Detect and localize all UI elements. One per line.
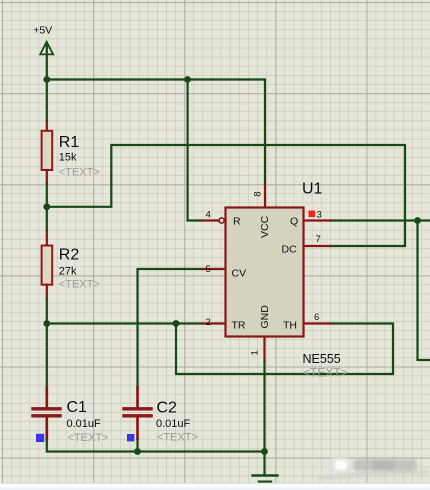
pin stub C1 bottom [45, 418, 48, 440]
wire Q output [330, 219, 430, 221]
wire CV to C2 [138, 269, 204, 388]
wire C1 to ground rail [47, 440, 265, 452]
wire R1 to node [46, 183, 48, 207]
wire C2 to ground rail [136, 439, 138, 452]
svg-text:R2: R2 [59, 247, 80, 264]
ground symbol [253, 476, 278, 482]
svg-text:VCC: VCC [259, 215, 271, 238]
pin 7 stub [304, 245, 331, 247]
svg-text:TR: TR [232, 320, 246, 332]
wire left rail (R1 top) [46, 80, 48, 121]
capacitor C2 [124, 407, 151, 410]
resistor R2 [42, 246, 53, 285]
pin 3 marker square [309, 211, 316, 218]
node top-left [43, 76, 50, 83]
pin stub C2 bottom [136, 418, 139, 439]
wire Q branch down [418, 221, 430, 361]
wire TR rail [47, 322, 203, 324]
capacitor C1 [33, 407, 60, 410]
svg-text:C2: C2 [157, 399, 178, 416]
svg-text:U1: U1 [302, 181, 323, 198]
node TR branch [173, 320, 180, 327]
resistor R1 [42, 131, 53, 170]
pin stub R1 bottom [46, 170, 48, 183]
svg-text:3: 3 [317, 209, 322, 220]
pin stub R2 top [46, 231, 48, 246]
svg-text:Q: Q [290, 215, 298, 227]
pin 4 stub [201, 219, 219, 221]
pin 1 stub [263, 337, 265, 362]
op-amp U1 555 body [226, 208, 304, 337]
svg-text:<TEXT>: <TEXT> [157, 432, 198, 444]
pin 8 stub [264, 184, 266, 208]
node ground rail [261, 448, 268, 455]
pin 5 stub [203, 268, 226, 270]
svg-text:+5V: +5V [33, 25, 52, 37]
svg-text:CV: CV [232, 267, 247, 279]
wire DC feedback: node to pin 7 [47, 145, 405, 246]
svg-text:NE555: NE555 [303, 352, 341, 366]
svg-text:<TEXT>: <TEXT> [303, 365, 348, 379]
svg-text:R: R [233, 215, 241, 227]
svg-text:4: 4 [206, 210, 211, 221]
svg-text:C1: C1 [67, 399, 88, 416]
pin stub C2 top [136, 388, 139, 408]
node Q branch [414, 217, 421, 224]
svg-text:15k: 15k [59, 152, 77, 164]
node pin4 branch [184, 76, 191, 83]
node C2/ground rail [134, 448, 141, 455]
svg-text:GND: GND [259, 305, 271, 329]
pin stub R1 top [46, 121, 48, 132]
svg-text:8: 8 [252, 192, 263, 197]
node R2/C1/TR [43, 320, 50, 327]
svg-text:<TEXT>: <TEXT> [68, 432, 109, 444]
C1 handle square [36, 434, 44, 442]
pin 3 stub [304, 219, 331, 221]
pin 6 stub [304, 322, 331, 324]
svg-text:0.01uF: 0.01uF [156, 418, 191, 430]
svg-text:27k: 27k [59, 266, 77, 278]
svg-text:<TEXT>: <TEXT> [59, 166, 100, 178]
wire pin4 reset [188, 80, 201, 221]
wire R2 to node [46, 300, 48, 324]
wire TR to TH [176, 324, 393, 375]
power symbol +5V arrow [46, 44, 48, 80]
svg-text:DC: DC [282, 243, 298, 255]
pin stub C1 top [45, 388, 48, 408]
svg-text:<TEXT>: <TEXT> [59, 279, 100, 291]
svg-text:R1: R1 [59, 134, 80, 151]
svg-text:1: 1 [250, 350, 261, 355]
bottom white strip [0, 483, 430, 490]
svg-text:2: 2 [206, 317, 211, 328]
wire C1 top [46, 324, 48, 388]
pin stub R2 bottom [46, 285, 48, 300]
pin 2 stub [203, 322, 226, 324]
svg-text:6: 6 [314, 312, 319, 323]
wire R2 top [46, 207, 48, 231]
svg-text:5: 5 [206, 264, 211, 275]
svg-text:TH: TH [283, 319, 297, 331]
pin 4 bubble [219, 218, 224, 223]
C2 handle square [127, 434, 134, 441]
svg-text:7: 7 [316, 234, 321, 245]
wire GND down [263, 361, 265, 475]
node R1/R2/DC [43, 203, 50, 210]
svg-text:0.01uF: 0.01uF [67, 418, 102, 430]
watermark blob [316, 457, 428, 480]
wire top rail to VCC [47, 80, 265, 185]
